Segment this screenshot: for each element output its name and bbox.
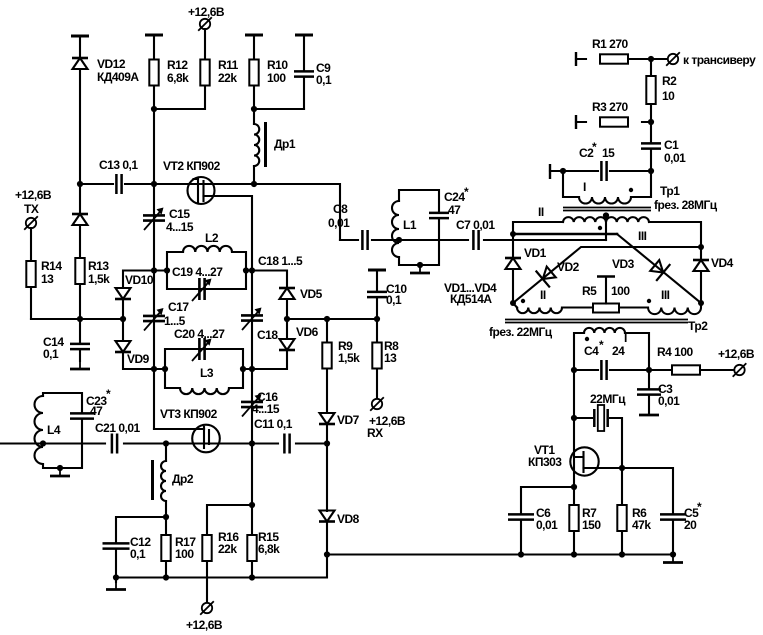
core Tr2 — [505, 320, 688, 323]
svg-text:R10: R10 — [267, 58, 288, 72]
polarity dot winding I — [629, 188, 633, 192]
svg-text:C24: C24 — [444, 190, 465, 204]
capacitor C3 — [637, 389, 661, 394]
wire R1 line — [576, 58, 666, 60]
capacitor C6 — [508, 514, 534, 519]
diode VD12 — [72, 58, 88, 69]
wire crystal link — [574, 418, 622, 468]
wire R17 column — [165, 517, 167, 578]
resistor R1 — [600, 54, 628, 63]
svg-text:150: 150 — [582, 518, 601, 532]
wire VD12 column — [79, 36, 81, 319]
svg-text:R14: R14 — [41, 259, 62, 273]
variable capacitor C18 — [241, 308, 263, 331]
variable capacitor C17 — [143, 308, 165, 331]
svg-text:I: I — [583, 180, 586, 194]
crystal ZQ 22MHz — [594, 409, 607, 427]
svg-text:R13: R13 — [88, 259, 109, 273]
wire C2 line — [550, 170, 651, 172]
svg-text:TX: TX — [24, 202, 39, 216]
node C13-VD12 junction — [77, 181, 83, 187]
winding II/III of Tr1 — [563, 217, 649, 222]
capacitor C7 — [473, 230, 478, 250]
svg-text:III: III — [661, 288, 670, 302]
resistor R5 trimmer — [593, 304, 619, 313]
svg-text:22МГц: 22МГц — [590, 392, 626, 406]
wire R14 column — [30, 228, 32, 319]
svg-text:VT3 КП902: VT3 КП902 — [160, 407, 218, 421]
svg-text:VD1: VD1 — [524, 246, 547, 260]
wire VD8 column — [326, 444, 328, 555]
variable capacitor C15 — [143, 208, 165, 231]
node C12 bottom — [113, 574, 119, 580]
node R9 top — [324, 316, 330, 322]
wire crystal column — [573, 370, 575, 487]
diode VD5 — [279, 288, 295, 299]
inductor L4 with box — [43, 393, 82, 468]
ground under L1 — [410, 265, 430, 273]
resistor R13 — [75, 258, 84, 284]
svg-text:15: 15 — [602, 146, 615, 160]
wire L3 taps — [154, 368, 252, 370]
svg-text:VD9: VD9 — [127, 352, 150, 366]
node R7 bottom — [571, 551, 577, 557]
svg-text:КД409А: КД409А — [97, 70, 139, 84]
svg-text:0,01: 0,01 — [658, 394, 680, 408]
variable capacitor C16 — [241, 394, 263, 417]
sheet tick R1 — [575, 52, 577, 66]
svg-text:24: 24 — [612, 344, 625, 358]
svg-text:R3 270: R3 270 — [592, 100, 629, 114]
svg-text:I: I — [624, 331, 627, 345]
svg-text:+12,6В: +12,6В — [15, 188, 52, 202]
resistor R7 — [569, 505, 578, 531]
node Tr1 primary right — [648, 168, 654, 174]
svg-text:fрез. 22МГц: fрез. 22МГц — [489, 325, 553, 339]
wire VD3 branch — [513, 233, 617, 236]
node center tap Tr1 — [603, 212, 609, 218]
wire R2 column — [650, 59, 652, 122]
node Dr2 top — [163, 440, 169, 446]
sheet tick C2 — [549, 164, 551, 179]
svg-text:RX: RX — [367, 426, 383, 440]
node L2 box right — [243, 267, 249, 273]
capacitor C4 — [601, 360, 606, 380]
node Tr1 primary left — [560, 168, 566, 174]
node L2 box left — [164, 267, 170, 273]
svg-text:0,01: 0,01 — [664, 151, 686, 165]
capacitor C8 — [362, 230, 367, 250]
svg-text:+12,6В: +12,6В — [718, 347, 755, 361]
wire mixer left vertical — [512, 234, 514, 303]
node R12-R11 — [151, 106, 157, 112]
inductor Dr1 — [254, 124, 259, 166]
svg-text:VD7: VD7 — [337, 413, 360, 427]
wire C4 line — [574, 369, 673, 371]
svg-text:к трансиверу: к трансиверу — [683, 53, 756, 67]
svg-text:R4 100: R4 100 — [657, 345, 694, 359]
svg-text:C11 0,1: C11 0,1 — [254, 417, 293, 431]
wire C12 branch — [116, 517, 166, 578]
inductor L1 with box — [399, 190, 439, 265]
wire C10 column — [376, 270, 378, 319]
svg-text:VD5: VD5 — [300, 287, 323, 301]
wire left low rail — [31, 318, 123, 320]
wire C5 bottom — [672, 520, 674, 555]
svg-text:VD3: VD3 — [612, 257, 635, 271]
wire secondary right lead — [649, 222, 701, 247]
resistor R10 — [249, 60, 258, 86]
wire main gate line VT2 — [154, 184, 340, 240]
ground bottom left — [115, 578, 117, 583]
node R6 bottom — [619, 551, 625, 557]
svg-text:L3: L3 — [200, 366, 214, 380]
terminal +12,6V bottom — [200, 601, 214, 615]
transistor VT2 — [188, 177, 215, 204]
inductor L3 with box — [165, 349, 243, 388]
node C18-C16 mid — [249, 366, 255, 372]
wire VD9 branch — [123, 319, 154, 369]
svg-text:1...5: 1...5 — [164, 314, 186, 328]
capacitor C12 — [103, 543, 130, 548]
svg-text:VD6: VD6 — [296, 325, 319, 339]
terminal +12,6V right — [733, 363, 747, 377]
wire bottom left rail — [116, 555, 327, 578]
svg-text:13: 13 — [384, 351, 397, 365]
capacitor C14 — [70, 344, 90, 349]
svg-text:4...15: 4...15 — [252, 402, 280, 416]
diode VD9 — [115, 341, 131, 352]
svg-text:C21 0,01: C21 0,01 — [95, 421, 141, 435]
node L3 left tap — [151, 366, 157, 372]
svg-text:VD10: VD10 — [125, 273, 154, 287]
svg-text:L1: L1 — [403, 218, 417, 232]
svg-text:100: 100 — [267, 71, 286, 85]
open bar C10 top — [368, 269, 386, 271]
node C5 bottom — [670, 551, 676, 557]
polarity dot winding II Tr2 — [521, 299, 525, 303]
capacitor C2 — [601, 161, 606, 181]
power rail bar for C9 — [295, 34, 313, 36]
wire C3 column — [648, 370, 650, 414]
svg-text:47: 47 — [448, 203, 461, 217]
svg-text:VD2: VD2 — [557, 260, 580, 274]
svg-text:100: 100 — [611, 284, 630, 298]
terminal TX +12,6V — [24, 216, 38, 230]
node R10-C9 — [251, 106, 257, 112]
wire center tap to input — [605, 216, 607, 241]
wire R8 column — [376, 319, 378, 398]
svg-text:II: II — [538, 205, 544, 219]
terminal +12,6V top — [198, 17, 212, 31]
svg-text:КД514А: КД514А — [450, 292, 492, 306]
resistor R9 — [322, 343, 331, 369]
svg-text:13: 13 — [41, 272, 54, 286]
wire R9/VD7 column — [326, 319, 328, 444]
svg-text:C15: C15 — [169, 207, 190, 221]
resistor R2 — [646, 76, 655, 104]
diode VD6 — [279, 339, 295, 350]
capacitor C1 — [641, 143, 661, 148]
node R3-C1 — [648, 119, 654, 125]
node R17 bottom — [163, 574, 169, 580]
node L4 bottom — [57, 465, 63, 471]
wire VT3 gate from L3 — [154, 428, 204, 430]
winding II of Tr2 — [513, 303, 517, 308]
polarity dot winding II — [598, 226, 602, 230]
resistor R8 — [372, 343, 381, 369]
svg-text:0,1: 0,1 — [316, 73, 332, 87]
wire C1 column — [650, 122, 652, 171]
node mixer TR — [698, 244, 704, 250]
terminal k transiveru — [666, 52, 680, 66]
wire bias line y319 — [287, 318, 377, 320]
resistor R17 — [161, 535, 170, 561]
svg-text:10: 10 — [662, 89, 675, 103]
svg-text:КП303: КП303 — [528, 455, 562, 469]
svg-text:Тр2: Тр2 — [688, 319, 708, 333]
node R1-R2 — [648, 56, 654, 62]
svg-text:fрез. 28МГц: fрез. 28МГц — [654, 198, 718, 212]
node VD7 bottom — [324, 440, 330, 446]
node mixer BL — [510, 300, 516, 306]
svg-text:22k: 22k — [218, 542, 237, 556]
wire VD10 branch — [123, 271, 154, 320]
svg-text:VT2 КП902: VT2 КП902 — [163, 159, 221, 173]
resistor R3 — [600, 117, 628, 126]
wire main line VT3 — [0, 442, 327, 444]
capacitor C5 — [660, 514, 686, 519]
node R6 top — [619, 465, 625, 471]
svg-text:VD8: VD8 — [337, 512, 360, 526]
polarity dot winding I Tr2 — [585, 337, 589, 341]
variable capacitor C19 — [192, 278, 212, 301]
svg-text:C20 4...27: C20 4...27 — [174, 327, 225, 341]
wire VD2 branch — [513, 247, 701, 303]
node C18 top — [249, 267, 255, 273]
svg-text:L4: L4 — [47, 423, 61, 437]
capacitor C11 — [284, 434, 289, 454]
variable capacitor C20 — [192, 338, 212, 361]
svg-text:1,5k: 1,5k — [338, 351, 360, 365]
core Tr1 — [563, 208, 651, 211]
wire C13 link — [80, 183, 151, 185]
node Dr1 bottom on gate wire — [251, 181, 257, 187]
winding I of Tr2 — [574, 333, 649, 370]
node L2 left tap — [151, 267, 157, 273]
polarity dot winding III Tr2 — [647, 299, 651, 303]
wire L2 taps — [154, 269, 252, 271]
winding I of Tr1 — [563, 171, 651, 197]
svg-text:R12: R12 — [167, 58, 188, 72]
svg-text:0,1: 0,1 — [130, 547, 146, 561]
svg-text:C7 0,01: C7 0,01 — [456, 218, 495, 232]
svg-text:6,8k: 6,8k — [258, 542, 280, 556]
svg-text:0,1: 0,1 — [43, 347, 59, 361]
power rail bar for VD12 — [71, 35, 89, 37]
svg-text:C19 4...27: C19 4...27 — [172, 265, 223, 279]
svg-text:C17: C17 — [168, 300, 189, 314]
resistor R4 — [672, 365, 700, 374]
capacitor C24 — [429, 213, 449, 218]
wire R12/C15/C17 column — [154, 35, 204, 429]
svg-text:4...15: 4...15 — [166, 220, 194, 234]
diode VD1 — [505, 258, 521, 269]
capacitor C23 — [70, 413, 94, 418]
sheet tick R3 — [575, 115, 577, 129]
svg-text:Др2: Др2 — [172, 472, 194, 486]
wire R11 column — [154, 29, 205, 109]
svg-text:6,8k: 6,8k — [167, 71, 189, 85]
wire to R5 — [562, 306, 648, 308]
svg-text:Др1: Др1 — [274, 137, 296, 151]
wire R4 to terminal — [700, 369, 734, 371]
resistor R6 — [617, 505, 626, 531]
terminal RX +12,6V — [370, 397, 384, 411]
wire mixer right vertical — [700, 247, 702, 303]
capacitor C9 — [294, 71, 314, 76]
power rail bar for R10 — [245, 34, 263, 36]
node L3 box right — [240, 366, 246, 372]
node L3 box left — [162, 366, 168, 372]
node R13 bottom — [77, 316, 83, 322]
svg-text:+12,6В: +12,6В — [188, 5, 225, 19]
capacitor C21 — [112, 434, 117, 454]
diode VD2 — [536, 264, 559, 288]
diode VD3 — [648, 257, 671, 281]
svg-text:R5: R5 — [582, 284, 597, 298]
svg-text:47: 47 — [90, 404, 103, 418]
svg-text:III: III — [638, 229, 647, 243]
capacitor C10 — [367, 292, 387, 297]
node R16-R15 link — [249, 502, 255, 508]
svg-text:R2: R2 — [662, 74, 677, 88]
node crystal left — [571, 415, 577, 421]
node R15 bottom — [249, 574, 255, 580]
wire C18 1...5 link — [252, 271, 287, 370]
svg-text:0,01: 0,01 — [536, 518, 558, 532]
svg-text:+12,6В: +12,6В — [186, 618, 223, 632]
wire C6 branch — [521, 487, 574, 555]
ground under C14 — [70, 361, 90, 369]
node VD8 bottom — [324, 551, 330, 557]
node VT1 source — [571, 484, 577, 490]
svg-text:C1: C1 — [664, 138, 679, 152]
wire R15 column — [251, 444, 253, 578]
svg-text:C8: C8 — [333, 202, 348, 216]
node VD5-VD6 — [284, 316, 290, 322]
svg-text:Тр1: Тр1 — [660, 184, 680, 198]
svg-text:100: 100 — [175, 547, 194, 561]
resistor R12 — [149, 60, 158, 86]
svg-text:VD12: VD12 — [97, 57, 126, 71]
inductor L2 with box — [167, 252, 246, 289]
svg-text:R11: R11 — [218, 58, 239, 72]
node L4 on line — [40, 440, 46, 446]
node C6 bottom — [518, 551, 524, 557]
svg-text:1,5k: 1,5k — [88, 272, 110, 286]
wire R3 line — [576, 121, 651, 123]
svg-text:C13 0,1: C13 0,1 — [99, 158, 138, 172]
diode VD7 — [319, 413, 335, 424]
svg-text:VD4: VD4 — [711, 256, 734, 270]
node mixer BR — [698, 300, 704, 306]
transistor VT3 — [192, 425, 220, 453]
transistor VT1 — [570, 447, 598, 475]
winding III of Tr2 — [648, 303, 701, 314]
diode VD8 — [319, 511, 335, 522]
svg-text:0,01: 0,01 — [328, 216, 350, 230]
node C4 left — [571, 367, 577, 373]
svg-text:R1 270: R1 270 — [592, 37, 629, 51]
svg-text:C18 1...5: C18 1...5 — [258, 254, 303, 268]
svg-text:II: II — [540, 288, 546, 302]
ground right rail — [663, 555, 683, 563]
wire R10 column — [253, 35, 255, 184]
node VD10 bottom rail — [120, 316, 126, 322]
svg-text:C18: C18 — [257, 328, 278, 342]
wire R10 to C9 — [254, 108, 304, 110]
wire R6 column — [621, 468, 623, 555]
svg-text:0,1: 0,1 — [386, 293, 402, 307]
node gate VT2 — [151, 181, 157, 187]
wire VT1 drain line — [584, 468, 674, 514]
resistor R15 — [247, 535, 256, 561]
svg-text:L2: L2 — [205, 231, 219, 245]
node main line at C16 — [249, 440, 255, 446]
ground under L4 — [50, 468, 70, 476]
diode VD11 — [72, 214, 88, 225]
wire secondary left lead — [513, 222, 563, 234]
node Dr2 bottom — [163, 514, 169, 520]
ground bar under C3 — [639, 414, 659, 417]
resistor R11 — [200, 60, 209, 86]
resistor R16 — [202, 535, 211, 561]
capacitor C13 — [116, 174, 121, 194]
node L1 on line — [396, 237, 402, 243]
svg-text:20: 20 — [684, 518, 697, 532]
power rail bar for R12 — [145, 34, 163, 36]
resistor R14 — [26, 261, 35, 287]
node L1 bottom — [417, 262, 423, 268]
svg-text:47k: 47k — [632, 518, 651, 532]
node mixer TL — [510, 231, 516, 237]
wire R16 column — [207, 505, 252, 603]
diode VD4 — [693, 260, 709, 271]
diode VD10 — [115, 288, 131, 299]
svg-text:C4: C4 — [584, 344, 599, 358]
inductor Dr2 — [165, 444, 167, 518]
wire VT2 drain to tank column — [204, 196, 253, 444]
node R8/C10 — [374, 316, 380, 322]
wire C8 line — [340, 239, 606, 241]
node C4 right — [646, 367, 652, 373]
svg-text:22k: 22k — [218, 71, 237, 85]
wire R7 column — [573, 487, 575, 555]
wire C14 branch — [79, 319, 81, 361]
wire bottom right rail — [327, 553, 673, 555]
wire C9 column — [303, 35, 305, 109]
